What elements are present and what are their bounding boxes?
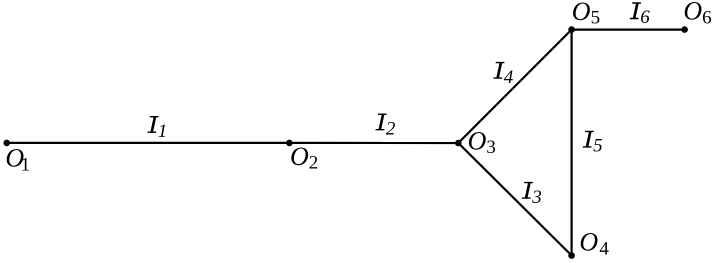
svg-text:O3: O3 — [468, 126, 496, 158]
svg-text:3: 3 — [531, 187, 542, 208]
wire I5 (edge O5-O4) — [570, 30, 572, 256]
svg-text:4: 4 — [504, 67, 514, 88]
node O2 — [286, 140, 293, 147]
label I4 — [493, 62, 513, 88]
label I5 — [583, 131, 603, 157]
svg-text:2: 2 — [386, 118, 396, 139]
label I3 — [522, 182, 542, 208]
svg-text:1: 1 — [158, 121, 168, 142]
svg-text:O4: O4 — [579, 228, 609, 260]
svg-text:O1: O1 — [5, 144, 30, 176]
svg-text:O2: O2 — [290, 142, 318, 174]
node O1 — [3, 140, 10, 147]
wire I1 (edge O1-O2) — [7, 142, 290, 144]
node O3 — [455, 140, 462, 147]
label I2 — [376, 113, 396, 139]
wire I6 (edge O5-O6) — [572, 29, 685, 31]
svg-text:O6: O6 — [683, 0, 711, 28]
wire I4 (edge O3-O5) — [458, 30, 571, 143]
node O6 — [681, 26, 688, 33]
wire I3 (edge O3-O4) — [458, 143, 571, 256]
label I6 — [630, 2, 650, 28]
label I1 — [148, 116, 168, 142]
wire I2 (edge O2-O3) — [289, 142, 458, 144]
svg-text:6: 6 — [640, 7, 650, 28]
node O5 — [568, 26, 575, 33]
svg-text:5: 5 — [593, 136, 603, 157]
svg-text:O5: O5 — [572, 0, 600, 29]
node O4 — [568, 252, 575, 259]
